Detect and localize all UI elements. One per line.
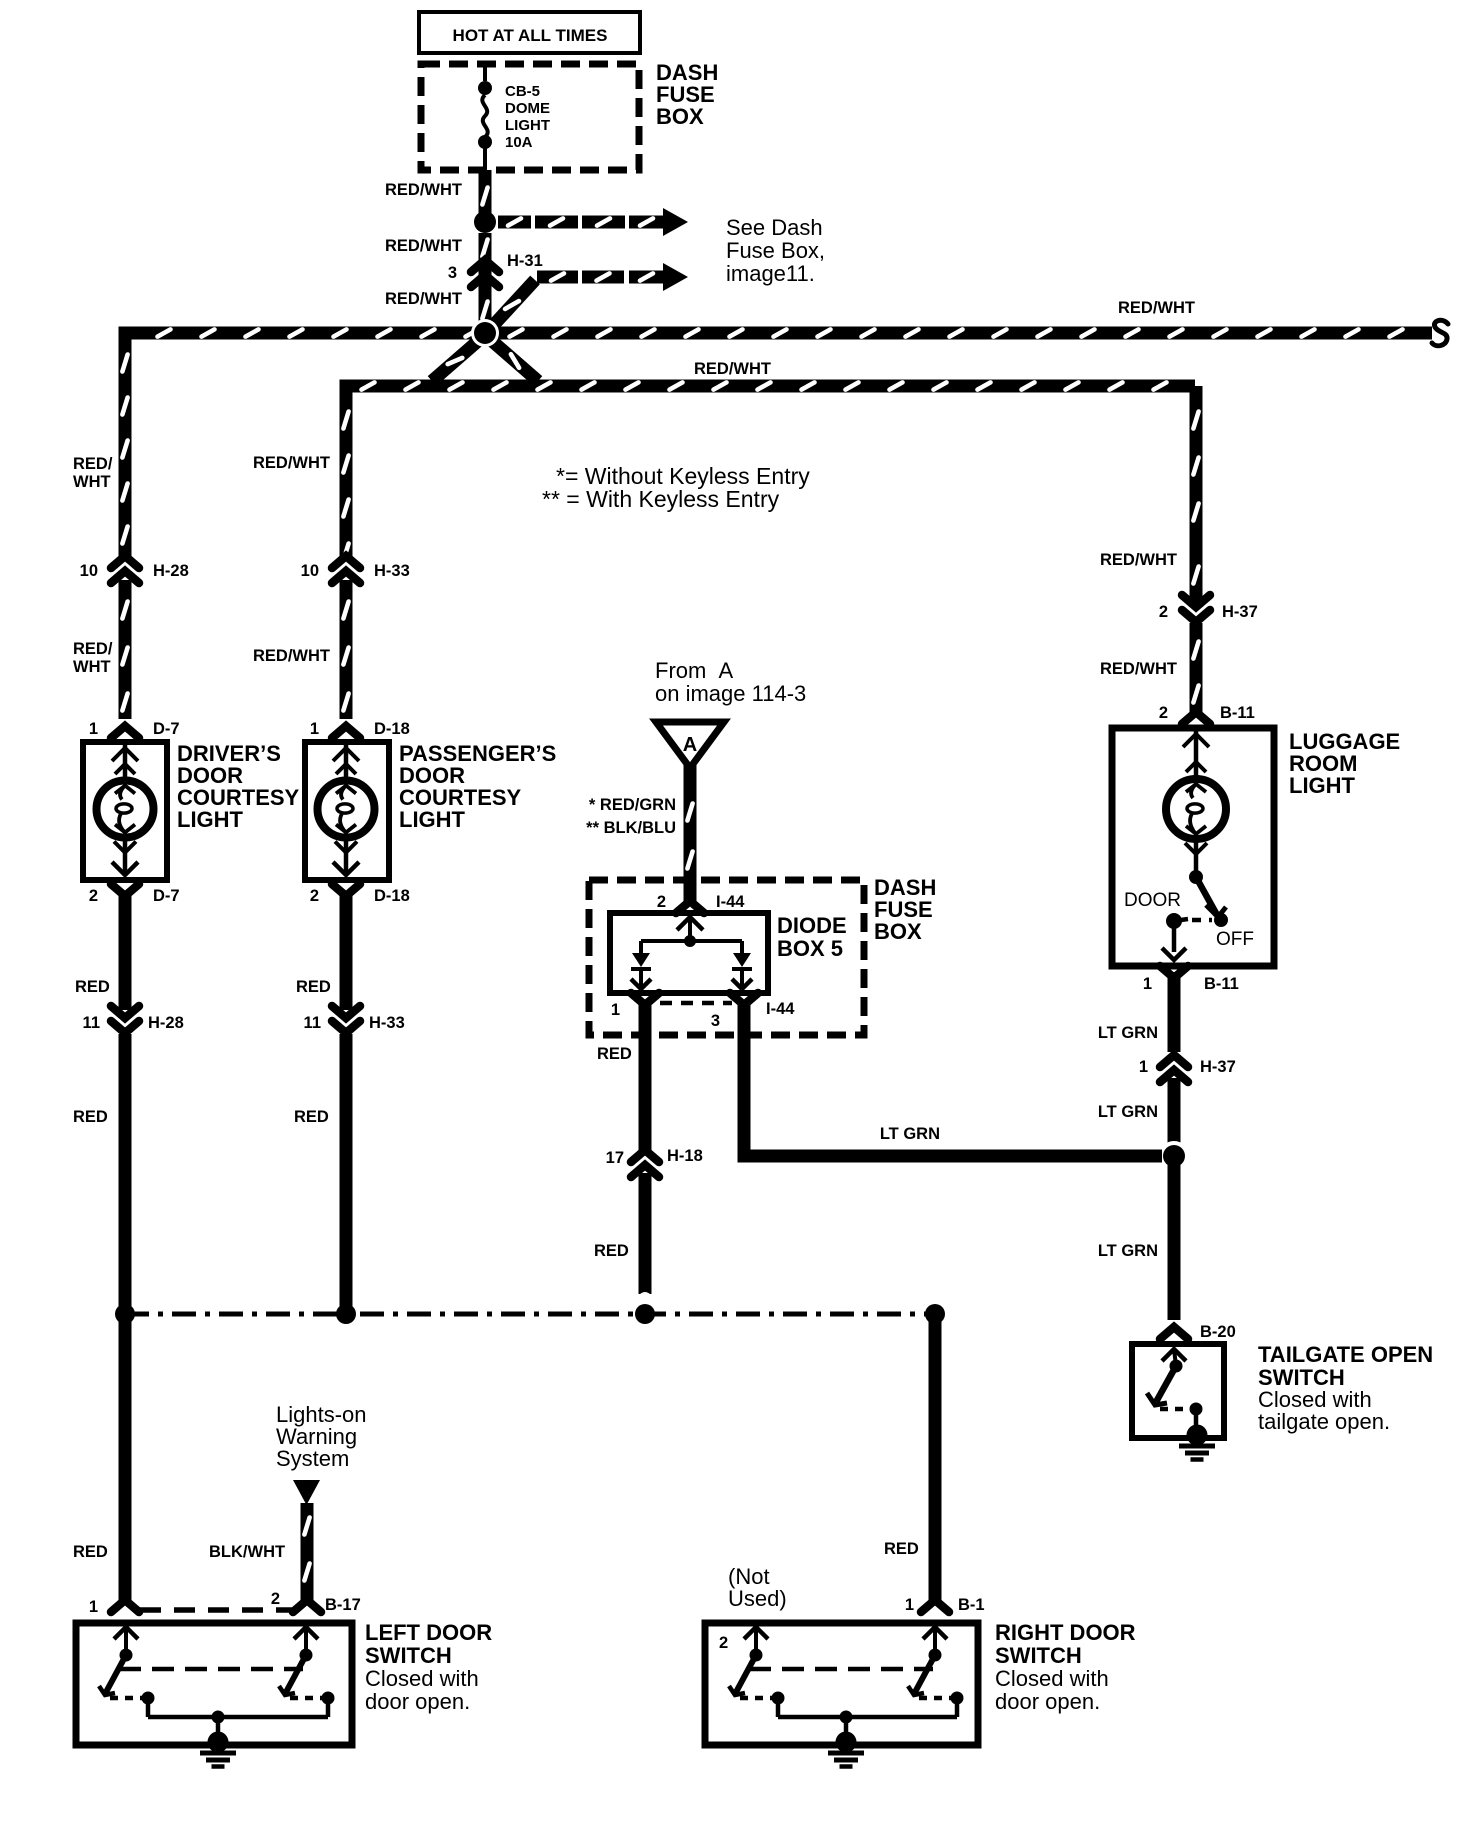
svg-text:BOX: BOX: [874, 919, 922, 944]
svg-text:LT GRN: LT GRN: [880, 1125, 940, 1143]
svg-text:door open.: door open.: [365, 1689, 470, 1714]
svg-text:LT GRN: LT GRN: [1098, 1024, 1158, 1042]
svg-text:From A: From A: [655, 658, 734, 683]
svg-text:H-37: H-37: [1200, 1058, 1236, 1076]
svg-text:RIGHT DOOR: RIGHT DOOR: [995, 1620, 1136, 1645]
svg-text:H-28: H-28: [153, 562, 189, 580]
svg-text:DIODE: DIODE: [777, 913, 847, 938]
svg-text:B-11: B-11: [1204, 975, 1239, 993]
svg-text:on image 114-3: on image 114-3: [655, 681, 806, 706]
svg-text:System: System: [276, 1446, 349, 1471]
svg-text:2: 2: [1159, 704, 1168, 722]
svg-text:RED/WHT: RED/WHT: [253, 454, 330, 472]
svg-text:TAILGATE OPEN: TAILGATE OPEN: [1258, 1342, 1433, 1367]
svg-text:1: 1: [89, 720, 98, 738]
svg-text:See Dash: See Dash: [726, 215, 823, 240]
svg-text:RED: RED: [294, 1108, 329, 1126]
svg-text:RED/WHT: RED/WHT: [385, 181, 462, 199]
svg-text:10: 10: [80, 562, 98, 580]
svg-text:DOOR: DOOR: [1124, 890, 1181, 911]
svg-text:LEFT DOOR: LEFT DOOR: [365, 1620, 492, 1645]
svg-text:H-31: H-31: [507, 252, 543, 270]
svg-text:2: 2: [657, 893, 666, 911]
svg-text:LIGHT: LIGHT: [177, 807, 244, 832]
svg-text:BOX: BOX: [656, 104, 704, 129]
svg-text:10A: 10A: [505, 134, 533, 151]
svg-text:D-7: D-7: [153, 887, 180, 905]
svg-text:CB-5: CB-5: [505, 83, 540, 100]
svg-text:2: 2: [719, 1634, 728, 1652]
svg-text:RED: RED: [884, 1540, 919, 1558]
svg-text:RED/WHT: RED/WHT: [1100, 551, 1177, 569]
svg-text:RED: RED: [597, 1045, 632, 1063]
svg-text:B-17: B-17: [325, 1596, 361, 1614]
svg-text:3: 3: [448, 264, 457, 282]
svg-text:RED: RED: [296, 978, 331, 996]
svg-text:WHT: WHT: [73, 473, 111, 491]
svg-text:BLK/WHT: BLK/WHT: [209, 1543, 285, 1561]
svg-text:LT GRN: LT GRN: [1098, 1242, 1158, 1260]
svg-text:HOT AT ALL TIMES: HOT AT ALL TIMES: [453, 26, 608, 45]
svg-text:1: 1: [905, 1596, 914, 1614]
svg-text:SWITCH: SWITCH: [365, 1643, 452, 1668]
svg-text:image11.: image11.: [726, 261, 815, 286]
svg-text:3: 3: [711, 1012, 720, 1030]
svg-text:OFF: OFF: [1216, 929, 1254, 950]
svg-text:* RED/GRN: * RED/GRN: [589, 796, 676, 814]
svg-text:1: 1: [1139, 1058, 1148, 1076]
svg-text:11: 11: [304, 1014, 321, 1032]
svg-text:10: 10: [301, 562, 319, 580]
svg-text:A: A: [683, 734, 697, 756]
svg-text:B-20: B-20: [1200, 1323, 1236, 1341]
svg-text:RED: RED: [73, 1543, 108, 1561]
svg-text:** BLK/BLU: ** BLK/BLU: [586, 819, 676, 837]
svg-text:2: 2: [89, 887, 98, 905]
svg-text:DOME: DOME: [505, 100, 550, 117]
svg-text:RED/WHT: RED/WHT: [385, 237, 462, 255]
svg-text:Fuse Box,: Fuse Box,: [726, 238, 825, 263]
svg-text:B-11: B-11: [1220, 704, 1255, 722]
svg-text:Used): Used): [728, 1586, 787, 1611]
svg-text:H-18: H-18: [667, 1147, 703, 1165]
svg-text:LIGHT: LIGHT: [1289, 773, 1356, 798]
svg-text:H-37: H-37: [1222, 603, 1258, 621]
svg-text:RED/: RED/: [73, 455, 113, 473]
svg-text:D-18: D-18: [374, 720, 410, 738]
svg-text:door open.: door open.: [995, 1689, 1100, 1714]
svg-text:RED: RED: [594, 1242, 629, 1260]
svg-text:WHT: WHT: [73, 658, 111, 676]
svg-text:** = With Keyless Entry: ** = With Keyless Entry: [542, 486, 780, 512]
svg-text:17: 17: [606, 1149, 624, 1167]
svg-text:I-44: I-44: [716, 893, 745, 911]
svg-text:B-1: B-1: [958, 1596, 985, 1614]
svg-text:RED: RED: [75, 978, 110, 996]
svg-text:tailgate open.: tailgate open.: [1258, 1409, 1390, 1434]
svg-text:I-44: I-44: [766, 1000, 795, 1018]
svg-text:LT GRN: LT GRN: [1098, 1103, 1158, 1121]
svg-text:2: 2: [310, 887, 319, 905]
svg-text:RED/WHT: RED/WHT: [385, 290, 462, 308]
svg-text:SWITCH: SWITCH: [995, 1643, 1082, 1668]
svg-text:Closed with: Closed with: [365, 1666, 479, 1691]
svg-text:1: 1: [89, 1598, 98, 1616]
svg-text:H-33: H-33: [374, 562, 410, 580]
svg-text:RED/WHT: RED/WHT: [1100, 660, 1177, 678]
svg-text:RED: RED: [73, 1108, 108, 1126]
svg-text:RED/WHT: RED/WHT: [253, 647, 330, 665]
svg-text:1: 1: [310, 720, 319, 738]
svg-text:2: 2: [1159, 603, 1168, 621]
svg-text:D-18: D-18: [374, 887, 410, 905]
svg-text:LIGHT: LIGHT: [505, 117, 550, 134]
svg-text:RED/WHT: RED/WHT: [1118, 299, 1195, 317]
svg-text:Closed with: Closed with: [995, 1666, 1109, 1691]
svg-text:11: 11: [83, 1014, 100, 1032]
svg-text:LIGHT: LIGHT: [399, 807, 466, 832]
svg-text:1: 1: [1143, 975, 1152, 993]
svg-text:2: 2: [271, 1590, 280, 1608]
svg-text:H-33: H-33: [369, 1014, 405, 1032]
svg-text:1: 1: [611, 1001, 620, 1019]
svg-text:RED/WHT: RED/WHT: [694, 360, 771, 378]
svg-text:H-28: H-28: [148, 1014, 184, 1032]
svg-text:RED/: RED/: [73, 640, 113, 658]
svg-text:BOX 5: BOX 5: [777, 936, 843, 961]
svg-text:D-7: D-7: [153, 720, 180, 738]
